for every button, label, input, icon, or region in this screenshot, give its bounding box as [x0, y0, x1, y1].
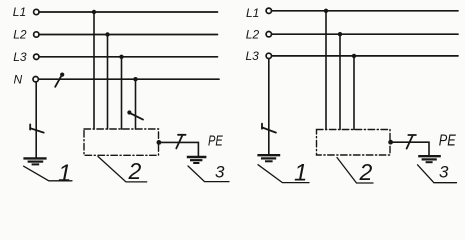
- wire L2 (left): [39, 34, 217, 36]
- wire L3 (right): [272, 55, 458, 57]
- svg-text:PE: PE: [439, 133, 456, 150]
- terminal L3 (right): [266, 53, 271, 58]
- disconnect link on PE wire (left): [176, 135, 185, 149]
- label 3 leader (left): [188, 166, 229, 182]
- disconnect link on earthing conductor (right): [262, 124, 276, 133]
- label 3 leader (right): [418, 165, 457, 183]
- junction PE at box (right): [388, 140, 393, 145]
- equipment box 2 (right, dash-dot): [317, 130, 391, 156]
- wire PE (left): [159, 142, 199, 156]
- junction on L1 (left): [92, 10, 96, 14]
- wire L2 (right): [272, 33, 458, 35]
- svg-text:L2: L2: [246, 27, 260, 41]
- svg-text:3: 3: [215, 162, 225, 181]
- label 2 leader (right): [337, 158, 373, 184]
- wire L2 drop to box (right): [339, 34, 341, 129]
- svg-text:PE: PE: [208, 133, 224, 150]
- terminal L2 (left): [34, 32, 39, 37]
- svg-text:L1: L1: [246, 6, 259, 20]
- junction on L1 (right): [324, 9, 328, 13]
- svg-text:1: 1: [294, 160, 307, 187]
- junction PE at box (left): [157, 140, 162, 145]
- svg-text:2: 2: [359, 159, 373, 185]
- wire L1 drop to box (left): [93, 12, 95, 129]
- label 1 leader (left): [24, 166, 72, 181]
- junction on N (left): [133, 77, 137, 81]
- terminal L1 (left): [34, 9, 39, 14]
- junction on L3 (left): [119, 55, 123, 59]
- wire L3 (left): [39, 56, 217, 58]
- wire PEN conductor down to earth (left): [35, 82, 37, 158]
- svg-text:1: 1: [58, 160, 71, 187]
- terminal N (left): [33, 77, 38, 82]
- link symbol with dot on N wire (left): [55, 73, 64, 87]
- disconnect link on PE wire (right): [407, 135, 416, 149]
- earth electrode 3 (left ground): [187, 157, 207, 163]
- svg-text:L1: L1: [13, 5, 26, 19]
- svg-text:L2: L2: [13, 28, 27, 42]
- link symbol with dot on N drop (left): [127, 110, 143, 119]
- terminal L2 (right): [266, 32, 271, 37]
- wire L1 (right): [272, 10, 458, 12]
- wire N drop to box (left): [135, 79, 137, 129]
- earth electrode 1 (right ground): [257, 155, 280, 161]
- wire L2 drop to box (left): [107, 35, 109, 130]
- junction on L2 (right): [338, 32, 342, 36]
- junction on L2 (left): [105, 32, 109, 36]
- equipment box 2 (left, dash-dot): [84, 129, 159, 155]
- disconnect link on PEN conductor (left): [30, 124, 44, 132]
- svg-text:L3: L3: [13, 50, 27, 64]
- label 1 leader (right): [258, 165, 309, 183]
- wire N (left): [39, 78, 219, 80]
- earth electrode 3 (right ground): [418, 156, 441, 162]
- wire earthing conductor down from L3 terminal (right): [268, 59, 270, 155]
- label 2 leader (left): [98, 157, 147, 182]
- svg-text:2: 2: [128, 158, 142, 184]
- earth electrode 1 (left ground): [23, 158, 46, 164]
- svg-text:3: 3: [439, 163, 449, 182]
- wire L3 drop to box (right): [353, 56, 355, 130]
- wire PE (right): [391, 142, 429, 155]
- svg-text:N: N: [14, 72, 23, 86]
- junction on L3 (right): [352, 54, 356, 58]
- terminal L3 (left): [34, 54, 39, 59]
- wire L3 drop to box (left): [121, 57, 123, 129]
- wire L1 (left): [39, 11, 217, 13]
- svg-text:L3: L3: [246, 49, 260, 63]
- wire L1 drop to box (right): [325, 11, 327, 130]
- terminal L1 (right): [266, 8, 271, 13]
